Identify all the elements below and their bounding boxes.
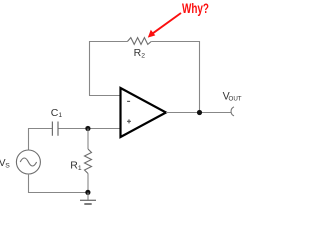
- output open terminal arc: [231, 107, 234, 116]
- ground: [80, 199, 96, 201]
- svg-text:2: 2: [141, 53, 145, 60]
- junction dot ground node: [85, 190, 90, 195]
- op-amp plus symbol: [127, 119, 131, 123]
- source VS sine wave: [20, 158, 36, 166]
- wire top rail right segment and right vertical: [151, 42, 199, 113]
- annotation arrow (red): [148, 13, 181, 38]
- junction dot input node: [85, 126, 90, 131]
- resistor R1: [85, 149, 92, 174]
- svg-text:1: 1: [78, 165, 82, 172]
- wire inverting input: [89, 95, 121, 97]
- op-amp minus symbol: [127, 100, 130, 102]
- svg-text:OUT: OUT: [229, 95, 242, 102]
- capacitor C1: [52, 122, 58, 136]
- svg-text:1: 1: [58, 112, 62, 119]
- source VS circle: [16, 150, 40, 174]
- wire ground stub: [87, 193, 89, 200]
- wire non-inverting input from C1 to op-amp: [58, 128, 121, 130]
- wire from R1 down to bottom rail: [87, 174, 89, 193]
- wire feedback left vertical and top-left segment: [90, 42, 128, 96]
- wire from Vs bottom to bottom rail: [29, 174, 88, 193]
- wire from Vs top to C1 left plate: [29, 129, 53, 151]
- junction dot output node: [197, 110, 202, 115]
- op-amp U1: [121, 88, 167, 137]
- wire output: [166, 112, 231, 114]
- wire from input node down to R1: [87, 129, 89, 150]
- resistor R2: [127, 38, 151, 45]
- svg-text:S: S: [5, 162, 10, 169]
- svg-text:Why?: Why?: [182, 0, 209, 16]
